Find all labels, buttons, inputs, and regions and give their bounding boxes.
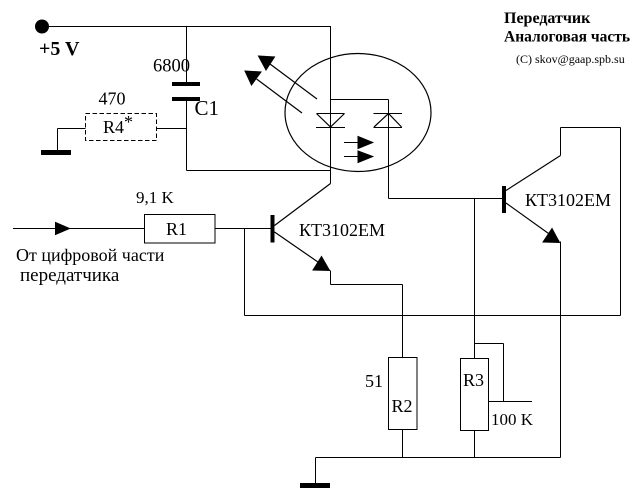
wire Q2 emitter vertical bbox=[560, 242, 562, 458]
wire Q1 emitter to R2 bbox=[331, 284, 403, 286]
wire photodiode to Q2 base bbox=[389, 198, 503, 200]
LED emission arrow lower bbox=[245, 71, 302, 113]
wire R3 top lead bbox=[474, 199, 476, 359]
photon arrow lower bbox=[344, 151, 373, 163]
resistor R1 body bbox=[145, 215, 216, 244]
svg-text:КТ3102ЕМ: КТ3102ЕМ bbox=[299, 220, 385, 240]
svg-text:Передатчик: Передатчик bbox=[504, 10, 591, 27]
svg-text:передатчика: передатчика bbox=[20, 265, 120, 286]
svg-text:+5 V: +5 V bbox=[39, 38, 80, 60]
transistor Q2 base bar bbox=[502, 186, 506, 213]
wire C1 top lead bbox=[186, 27, 188, 83]
svg-text:6800: 6800 bbox=[153, 57, 190, 77]
wire photodiode cathode lead bbox=[388, 100, 390, 114]
svg-text:(C) skov@gaap.spb.su: (C) skov@gaap.spb.su bbox=[516, 52, 625, 66]
wire photodiode top horizontal bbox=[331, 99, 389, 101]
wire R3 tap vertical bbox=[503, 344, 505, 402]
ground (R4) bbox=[41, 150, 71, 155]
transistor Q1 emitter bbox=[275, 232, 330, 270]
resistor R4 dashed body bbox=[86, 114, 157, 141]
svg-text:Аналоговая часть: Аналоговая часть bbox=[504, 29, 630, 46]
input arrowhead bbox=[56, 223, 70, 235]
resistor R2 body bbox=[389, 358, 418, 430]
wire R4 left lead bbox=[58, 128, 86, 130]
wire R4 right lead bbox=[157, 128, 187, 130]
resistor R3 body bbox=[461, 359, 489, 431]
transistor Q2 emitter bbox=[506, 203, 559, 241]
wire R3 tap horizontal upper bbox=[475, 343, 504, 345]
ground (bottom) bbox=[300, 483, 330, 488]
photodiode D2 symbol bbox=[374, 114, 403, 128]
wire Q2 collector top horizontal bbox=[561, 127, 621, 129]
LED emission arrow upper bbox=[259, 56, 318, 99]
wire ground stem bottom bbox=[315, 458, 317, 484]
svg-text:R1: R1 bbox=[166, 219, 187, 239]
LED D1 symbol bbox=[316, 114, 345, 128]
wire feedback vertical right bbox=[620, 128, 622, 316]
wire LED anode vertical bbox=[330, 27, 332, 128]
svg-text:100 K: 100 K bbox=[491, 410, 534, 429]
wire ground bus bottom bbox=[316, 457, 561, 459]
svg-text:R2: R2 bbox=[392, 396, 413, 416]
svg-text:КТ3102ЕМ: КТ3102ЕМ bbox=[525, 190, 611, 210]
svg-text:C1: C1 bbox=[195, 96, 220, 120]
svg-text:R3: R3 bbox=[463, 370, 484, 390]
wire C1 bottom lead bbox=[186, 101, 188, 171]
transistor Q1 base bar bbox=[271, 215, 275, 243]
wire R1 to Q1 base bbox=[215, 228, 271, 230]
wire LED cathode vertical bbox=[330, 127, 332, 184]
wire photodiode anode lead bbox=[388, 114, 390, 199]
wire feedback horizontal bbox=[245, 315, 621, 317]
svg-text:9,1 K: 9,1 K bbox=[136, 188, 175, 207]
wire R2 bottom lead bbox=[402, 430, 404, 458]
wire input line bbox=[13, 228, 144, 230]
svg-text:470: 470 bbox=[99, 89, 126, 109]
transistor Q1 collector bbox=[275, 184, 331, 226]
wire Q2 collector vertical bbox=[560, 128, 562, 156]
transistor Q2 collector bbox=[506, 156, 561, 191]
wire feedback vertical left bbox=[244, 229, 246, 316]
svg-text:51: 51 bbox=[365, 371, 383, 391]
wire R4 ground stem bbox=[57, 129, 59, 151]
svg-text:От цифровой части: От цифровой части bbox=[16, 245, 165, 265]
wire +5V rail bbox=[42, 26, 331, 28]
optocoupler ellipse bbox=[285, 54, 431, 172]
wire R2 top lead bbox=[402, 285, 404, 358]
transistor Q1 emitter arrowhead bbox=[313, 257, 330, 271]
node +5V junction dot bbox=[35, 20, 49, 34]
capacitor C1 plates bbox=[172, 82, 200, 86]
wire R3 wiper stub bbox=[489, 401, 533, 403]
wire R3 bottom lead bbox=[474, 431, 476, 458]
wire node X horizontal bbox=[187, 170, 331, 172]
wire Q1 emitter vertical bbox=[330, 271, 332, 285]
transistor Q2 emitter arrowhead bbox=[543, 229, 560, 243]
photon arrow upper bbox=[344, 137, 373, 149]
